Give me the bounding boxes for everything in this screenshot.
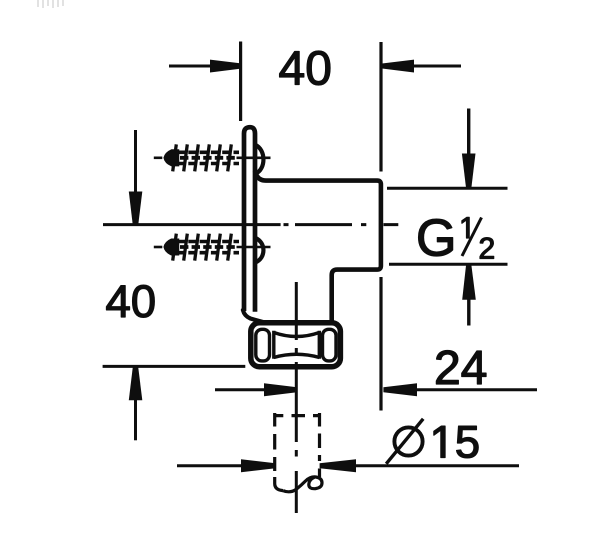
dimension dia15 left arrow [177, 464, 242, 467]
label dia15 [394, 427, 422, 455]
G1/2 up arrow [462, 264, 476, 300]
S2 axis [154, 246, 163, 249]
label G 1/2 [419, 219, 453, 256]
extension line left (wall plane) [239, 42, 242, 122]
screw S1 head dome [255, 145, 263, 174]
G1/2 upper reference line [387, 187, 508, 190]
dimension 40 left lower arrow [129, 366, 143, 400]
label 40 left [107, 285, 155, 317]
screw S1 (upper) [154, 144, 271, 171]
reference line nut bottom plane [103, 365, 246, 368]
dimension dia15 right arrow [320, 459, 356, 472]
S2 thread crests [173, 234, 232, 261]
pipe hidden outline right edge [318, 413, 321, 477]
S2 tip [164, 239, 178, 255]
S2 core edges [177, 240, 239, 244]
dimension 24 left arrow [215, 388, 265, 391]
screw S2 (lower) [154, 234, 271, 261]
dimension 40 left upper arrow [134, 130, 137, 193]
extension line right (body right face plane) [379, 42, 382, 411]
union nut outline [251, 323, 341, 367]
dimension 24 right arrow [383, 383, 417, 396]
watermark remnant top-left [38, 0, 63, 8]
G1/2 lower reference line [389, 263, 508, 266]
body outline [255, 171, 381, 321]
pipe break hook [275, 477, 283, 491]
S1 core edges [177, 151, 239, 155]
dimension line 40 top left arrow [169, 65, 212, 68]
pipe break wave and loop [283, 477, 322, 492]
dimension line 40 top right arrow [412, 65, 461, 68]
pipe hidden outline left edge [273, 413, 276, 471]
label 24 [436, 351, 486, 385]
center line horizontal [103, 223, 398, 226]
nut right facet [323, 329, 337, 361]
pipe hidden outline top edge [275, 414, 320, 417]
S1 axis [154, 157, 163, 160]
S1 tip [164, 150, 178, 166]
flange plate [244, 127, 255, 312]
nut center facet [274, 331, 320, 359]
screw S2 head dome [255, 238, 263, 263]
label 40 top [280, 51, 330, 85]
center line vertical outlet [295, 282, 298, 513]
flange foot chamfer [243, 310, 263, 322]
G1/2 down arrow [467, 109, 470, 156]
S1 thread crests [173, 144, 232, 171]
nut left facet [256, 329, 270, 361]
